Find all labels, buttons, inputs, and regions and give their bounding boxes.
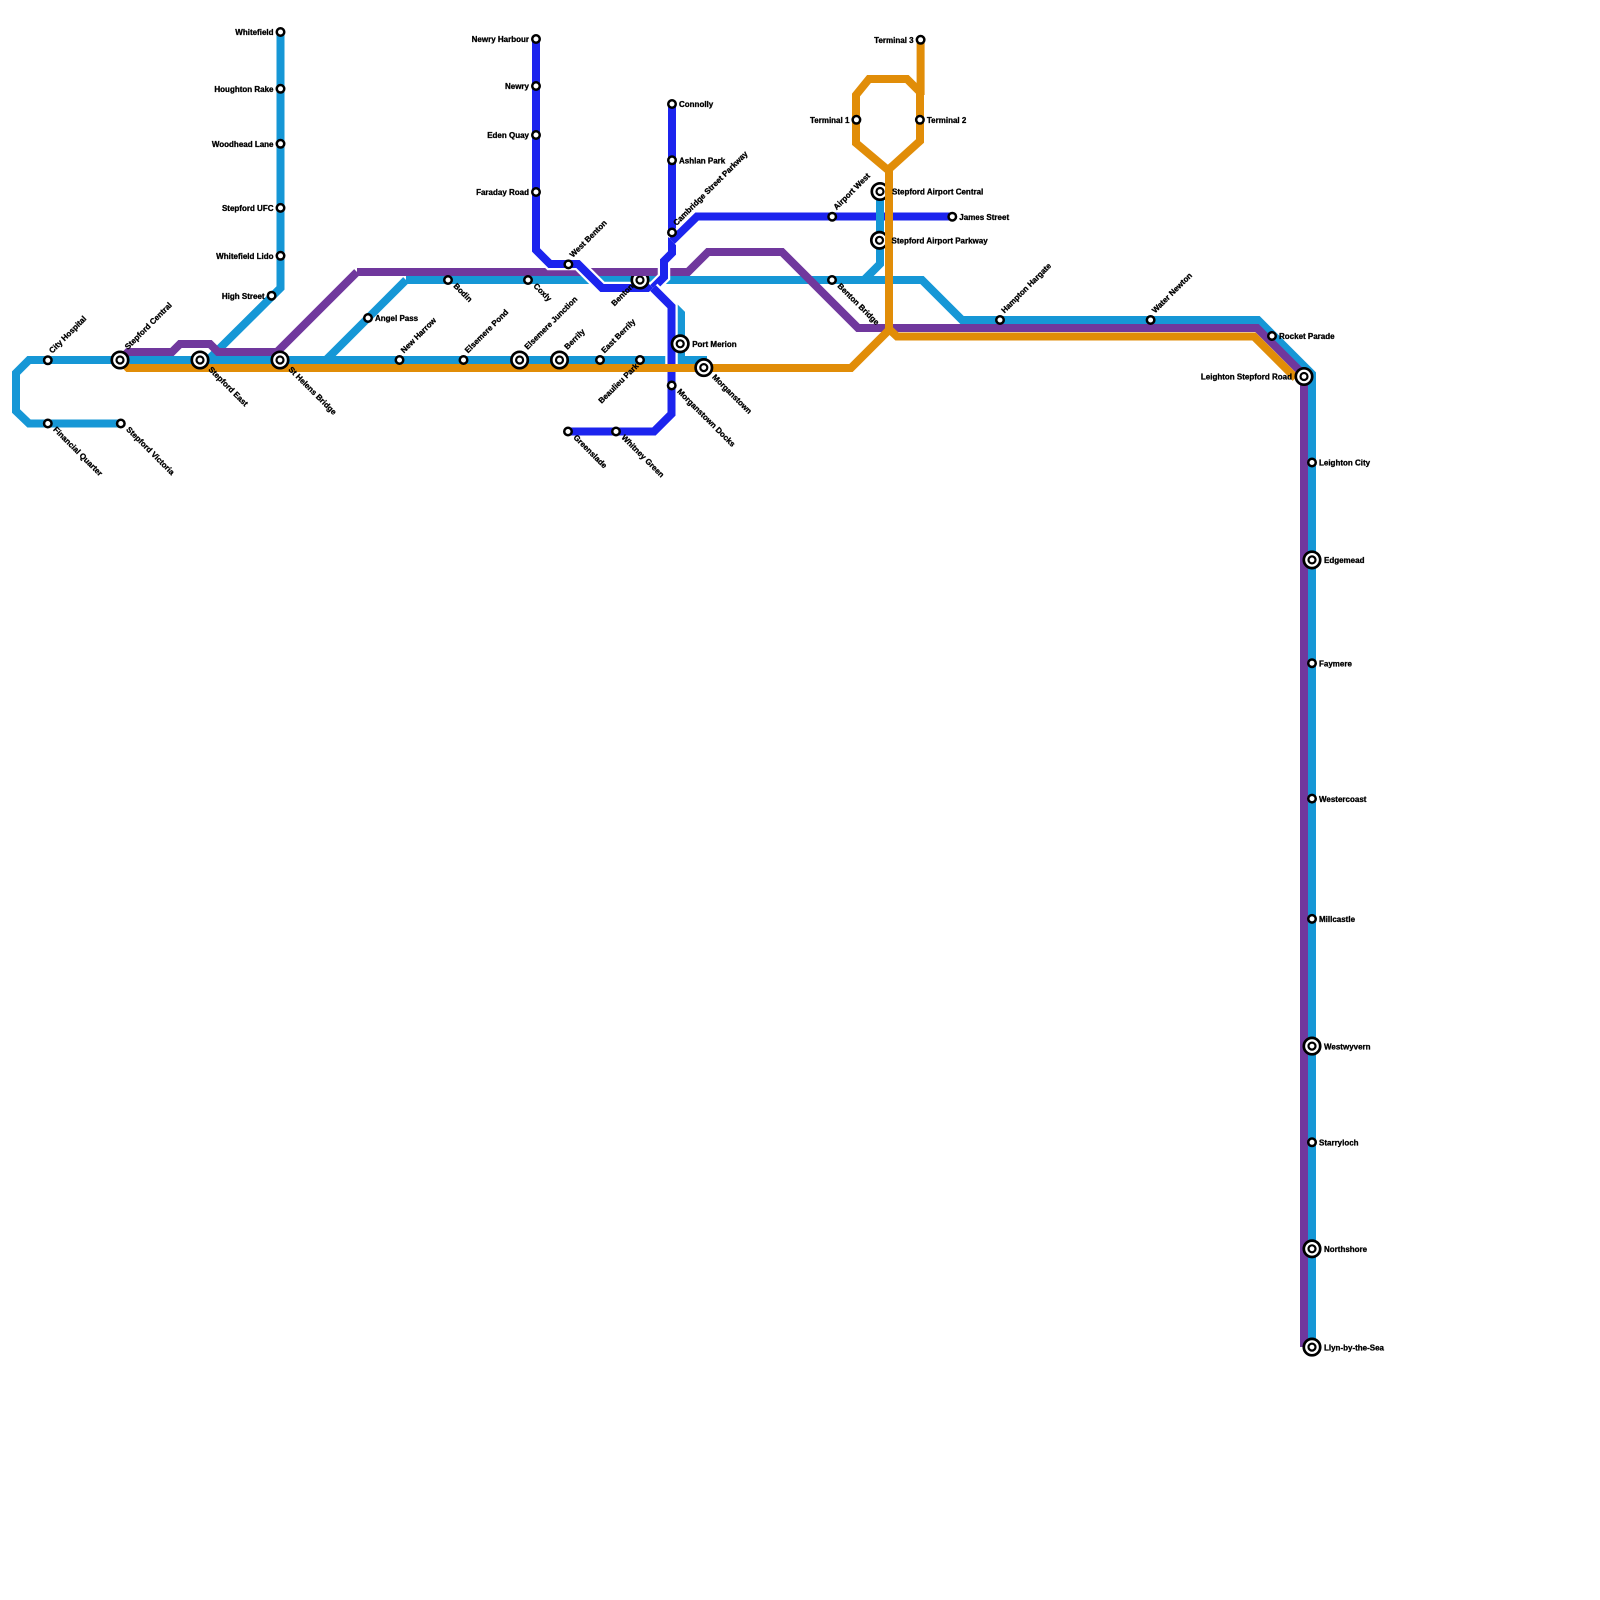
station Stepford Airport Parkway (interchange) [871,232,887,248]
station High Street [268,292,276,300]
station Hampton Hargate [996,316,1004,324]
station Woodhead Lane [277,140,285,148]
station Edgemead [1304,552,1320,568]
svg-text:Port Merion: Port Merion [692,340,737,349]
station Water Newton [1147,316,1155,324]
station Beaulieu Park [636,356,644,364]
svg-text:Leighton City: Leighton City [1319,459,1371,468]
wire light-blue Whitefield branch [208,32,281,360]
station Starryloch [1308,1139,1316,1147]
station Westercoast [1308,795,1316,803]
svg-text:Stepford Airport Central: Stepford Airport Central [892,188,983,197]
station Faymere [1308,659,1316,667]
station Northshore [1304,1241,1320,1257]
station Millcastle [1308,915,1316,923]
station Rocket Parade [1268,332,1276,340]
svg-text:Ashlan Park: Ashlan Park [679,157,726,166]
svg-text:Newry: Newry [505,82,530,91]
station Newry Harbour [532,35,540,43]
svg-text:Newry Harbour: Newry Harbour [472,35,529,44]
svg-text:Faymere: Faymere [1319,659,1352,668]
svg-text:Houghton Rake: Houghton Rake [214,85,274,94]
wire orange Terminal 3 spur [917,40,925,95]
station Elsemere Junction [511,352,527,368]
station Berrily [551,352,567,368]
station Financial Quarter [44,420,52,428]
station Benton Bridge [828,276,836,284]
station City Hospital [44,357,52,365]
svg-text:Terminal 1: Terminal 1 [810,116,850,125]
svg-text:Angel Pass: Angel Pass [375,314,419,323]
station Airport West [828,213,836,221]
svg-text:Connolly: Connolly [679,100,714,109]
svg-text:High Street: High Street [222,292,265,301]
station Connolly [668,100,676,108]
station Eden Quay [532,131,540,139]
svg-text:Starryloch: Starryloch [1319,1139,1359,1148]
svg-text:Terminal 3: Terminal 3 [874,36,914,45]
wire purple line west section [120,272,357,360]
station Cambridge Street Parkway [668,229,676,237]
wire dark-blue James Street branch casing [672,217,952,242]
station Whitney Green [612,428,620,436]
wire orange airport terminal loop [856,79,920,170]
station Whitefield Lido [277,252,285,259]
station East Berrily [596,356,604,364]
station Houghton Rake [277,85,285,93]
station Terminal 1 [853,116,861,124]
svg-text:Stepford Airport Parkway: Stepford Airport Parkway [892,237,989,246]
station Llyn-by-the-Sea [1304,1339,1320,1355]
wire light-blue Angel Pass link [326,280,406,360]
svg-text:Westwyvern: Westwyvern [1324,1042,1371,1051]
svg-text:Terminal 2: Terminal 2 [927,116,967,125]
wire purple line east section to Llyn-by-the-Sea [357,252,1304,1347]
svg-text:Leighton Stepford Road: Leighton Stepford Road [1201,373,1292,382]
station Port Merion [672,336,688,352]
station Elsemere Pond [460,356,468,364]
svg-text:Millcastle: Millcastle [1319,915,1356,924]
svg-text:Whitefield: Whitefield [235,28,273,37]
wire dark-blue Greenslade branch casing [568,288,672,432]
station St Helens Bridge [272,352,288,368]
station Angel Pass [364,314,372,322]
station Benton (interchange) [632,272,648,288]
svg-text:Woodhead Lane: Woodhead Lane [212,140,274,149]
svg-text:Northshore: Northshore [1324,1245,1368,1254]
svg-text:James Street: James Street [959,213,1009,222]
svg-text:Faraday Road: Faraday Road [476,188,529,197]
station Leighton Stepford Road [1296,368,1312,384]
wire dark-blue Connolly line [653,104,672,288]
station Ashlan Park [668,157,676,165]
svg-text:Whitefield Lido: Whitefield Lido [216,252,273,261]
station Terminal 2 [916,116,924,124]
wire light-blue Port Merion branch [655,280,681,360]
station Stepford East [192,352,208,368]
station James Street [949,213,957,221]
station Leighton City [1308,459,1316,467]
wire orange east trunk to Leighton Stepford Road [889,329,1296,378]
svg-text:Rocket Parade: Rocket Parade [1279,332,1335,341]
station Newry [532,82,540,90]
wire dark-blue Connolly line casing [653,104,672,288]
station Morganstown Docks [668,382,676,390]
station Morganstown [696,359,712,375]
svg-text:Stepford UFC: Stepford UFC [222,204,274,213]
wire dark-blue James Street branch [672,217,952,242]
station Faraday Road [532,188,540,196]
svg-text:Eden Quay: Eden Quay [487,131,529,140]
svg-text:Edgemead: Edgemead [1324,556,1365,565]
wire light-blue main trunk + City Hospital loop [16,360,707,424]
station Stepford Victoria [117,420,125,428]
wire purple patch over Benton [614,268,656,276]
station Stepford UFC [277,204,285,212]
station Westwyvern [1304,1038,1320,1054]
station Greenslade [564,428,572,436]
wire orange west trunk + airport vertical [120,171,889,368]
wire dark-blue Greenslade branch [568,288,672,432]
station Stepford Airport Central (interchange) [872,183,888,199]
station Whitefield [277,28,285,36]
wire dark-blue Newry line [536,39,653,288]
svg-text:Llyn-by-the-Sea: Llyn-by-the-Sea [1324,1343,1385,1352]
wire dark-blue Newry line casing [536,39,653,288]
wire light-blue airport branch [864,192,880,280]
station Terminal 3 [917,36,925,44]
wire light-blue north corridor to Llyn-by-the-Sea [406,280,1312,1347]
station West Benton [565,261,573,269]
station Coxly [524,276,532,284]
station Stepford Central [112,352,128,368]
svg-text:Westercoast: Westercoast [1319,795,1367,804]
station New Harrow [396,356,404,364]
station Bodin [444,276,452,284]
